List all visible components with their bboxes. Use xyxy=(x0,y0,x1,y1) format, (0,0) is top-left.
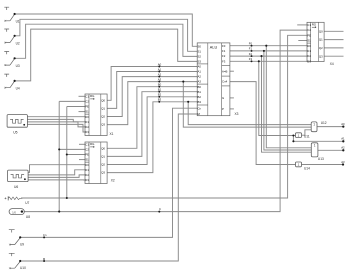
svg-text:U7: U7 xyxy=(25,201,29,205)
svg-text:U10: U10 xyxy=(20,266,26,270)
svg-text:A=B: A=B xyxy=(222,69,227,73)
wire B3 tap to U12 input1 xyxy=(188,102,311,125)
wire U14 output to terminal A3 xyxy=(302,164,344,166)
svg-text:Q3: Q3 xyxy=(101,123,105,127)
wire branch to output A1 terminal xyxy=(293,136,343,142)
svg-text:1: 1 xyxy=(313,123,315,127)
wire U5 out0 to X1 D0 xyxy=(27,116,85,118)
X4 Q3 output wire xyxy=(324,55,343,57)
VCC symbol above U10 xyxy=(9,253,15,256)
junction A3 tap xyxy=(182,81,184,83)
OR gate U13 xyxy=(311,143,318,157)
svg-text:B0: B0 xyxy=(158,83,162,87)
wire U4 to ALU S3 xyxy=(15,29,198,81)
buffer gate U11 xyxy=(296,133,302,138)
X2 C1 stub xyxy=(79,143,85,145)
svg-text:Cn4: Cn4 xyxy=(222,80,228,84)
switch U3 xyxy=(5,59,14,65)
svg-text:C1: C1 xyxy=(307,23,311,27)
ALU A=B stub xyxy=(230,70,234,72)
svg-text:PE: PE xyxy=(307,33,311,37)
OR gate U12 xyxy=(311,122,317,132)
svg-text:D0: D0 xyxy=(307,44,311,48)
svg-text:Q1: Q1 xyxy=(101,155,105,159)
svg-text:S1: S1 xyxy=(85,158,89,162)
X1 C1 stub xyxy=(79,95,86,97)
svg-text:1/0: 1/0 xyxy=(12,210,16,214)
wire X2 Q2 to ALU B2 xyxy=(107,97,197,165)
net dot Cn xyxy=(43,236,45,238)
clock source U8 xyxy=(9,209,24,215)
switch U9 xyxy=(10,238,20,245)
svg-text:D1: D1 xyxy=(307,49,311,53)
wire X1 Q2 to ALU A2 xyxy=(107,77,197,117)
svg-text:U6: U6 xyxy=(14,185,18,189)
terminal A3 xyxy=(342,163,344,165)
terminal A2 xyxy=(342,149,344,151)
wire ALU F1 to X4 D1 xyxy=(230,50,307,52)
switch U1 xyxy=(5,15,14,21)
net dot A2 xyxy=(158,76,160,78)
net dot F3 xyxy=(251,60,253,62)
svg-text:F0: F0 xyxy=(222,44,226,48)
X2 mode arrow xyxy=(90,146,94,148)
wire U6 out3 to X2 D3 xyxy=(28,179,85,181)
wire U5 out2 to X1 D2 xyxy=(27,122,85,127)
wire U1 to ALU S0 xyxy=(15,14,198,46)
net dot F2 xyxy=(251,55,253,57)
X2 C2 wire xyxy=(59,148,85,150)
wire X1 Q3 to ALU A3 xyxy=(107,82,197,125)
X4 C1 stub xyxy=(297,24,307,26)
junction F3 tap xyxy=(258,60,260,62)
svg-text:S1: S1 xyxy=(198,49,202,53)
wire X2 Q3 to ALU B3 xyxy=(107,102,197,173)
wire ALU F0 to X4 D0 xyxy=(230,45,307,47)
svg-text:U2: U2 xyxy=(16,41,20,45)
svg-text:Q0: Q0 xyxy=(101,146,105,150)
svg-text:PE: PE xyxy=(85,105,89,109)
junction U7 PE vertical xyxy=(66,197,68,199)
svg-text:F3: F3 xyxy=(249,57,253,61)
net dot B3 xyxy=(158,101,160,103)
switch U10 xyxy=(10,262,20,269)
svg-text:G: G xyxy=(222,96,224,100)
svg-text:RG: RG xyxy=(90,142,95,146)
VCC symbol above U9 xyxy=(9,230,15,233)
word generator U5 xyxy=(7,115,27,128)
svg-text:A3: A3 xyxy=(158,77,162,81)
ALU output section separator xyxy=(222,85,230,87)
buffer gate U14 xyxy=(296,162,302,167)
ALU section separator xyxy=(197,83,208,85)
ALU X3 body xyxy=(197,43,230,116)
svg-text:A1: A1 xyxy=(198,70,202,74)
X1 mode arrow xyxy=(90,98,94,100)
svg-text:U8: U8 xyxy=(26,215,30,219)
svg-text:A2: A2 xyxy=(198,75,202,79)
junction U11 input xyxy=(292,134,294,136)
wire U6 out1 to X2 D1 xyxy=(28,170,85,175)
junction F1 tap xyxy=(263,50,265,52)
junction dot U4 xyxy=(14,80,16,82)
svg-text:A3: A3 xyxy=(198,80,202,84)
svg-text:B2: B2 xyxy=(158,93,162,97)
X1 PE wire from U7 vertical xyxy=(67,107,85,199)
register X2 body xyxy=(85,142,107,184)
svg-text:A2: A2 xyxy=(158,72,162,76)
svg-text:S1: S1 xyxy=(85,110,89,114)
wire U3 to ALU S2 xyxy=(15,24,198,58)
svg-text:A3: A3 xyxy=(341,160,345,164)
wire U12 output to terminal A0 xyxy=(317,126,343,128)
X1 S1 stub xyxy=(79,111,86,113)
svg-text:A1: A1 xyxy=(341,137,345,141)
svg-text:D3: D3 xyxy=(85,178,89,182)
svg-text:RG: RG xyxy=(90,94,95,98)
X2 PE wire xyxy=(67,154,85,156)
svg-text:U5: U5 xyxy=(13,130,17,134)
svg-text:Q2: Q2 xyxy=(101,163,105,167)
svg-text:Q3: Q3 xyxy=(319,54,323,58)
wire U11 output to U12 xyxy=(302,130,312,135)
svg-text:F2: F2 xyxy=(249,52,253,56)
junction X2 PE xyxy=(66,153,68,155)
wire U7 to X4 PE xyxy=(21,35,307,198)
svg-text:C: C xyxy=(159,207,161,211)
svg-text:B0: B0 xyxy=(198,85,202,89)
output node dot U5 xyxy=(23,124,25,126)
svg-text:RG: RG xyxy=(312,22,317,26)
svg-text:1: 1 xyxy=(314,143,316,147)
wire ALU F3 to X4 D3 xyxy=(230,60,307,62)
register X4 body xyxy=(307,22,324,61)
svg-text:U12: U12 xyxy=(321,121,327,125)
svg-text:S0: S0 xyxy=(198,44,202,48)
svg-text:D1: D1 xyxy=(85,168,89,172)
svg-text:S3: S3 xyxy=(198,60,202,64)
svg-text:U13: U13 xyxy=(318,157,324,161)
svg-text:A1: A1 xyxy=(158,67,162,71)
wire F3 to U11 input xyxy=(259,61,296,135)
source U7 with resistor xyxy=(5,197,7,199)
svg-text:X3: X3 xyxy=(235,112,239,116)
VCC symbol above U1 xyxy=(4,7,9,10)
svg-text:C2: C2 xyxy=(307,28,311,32)
junction dot U10 xyxy=(19,260,21,262)
svg-text:Q3: Q3 xyxy=(101,171,105,175)
svg-text:B1: B1 xyxy=(158,88,162,92)
wire ALU Cn4 to U14 xyxy=(230,82,296,165)
X4 Q2 output wire xyxy=(324,47,343,49)
ALU output section separator xyxy=(222,75,230,77)
svg-text:C2: C2 xyxy=(85,148,89,152)
svg-text:B1: B1 xyxy=(198,90,202,94)
svg-text:S2: S2 xyxy=(198,55,202,59)
junction dot U2 xyxy=(14,35,16,37)
ALU G stub xyxy=(230,97,234,99)
net dot B0 xyxy=(158,86,160,88)
ALU section separator xyxy=(197,104,208,106)
svg-text:Q0: Q0 xyxy=(101,98,105,102)
svg-text:Cn: Cn xyxy=(43,233,47,237)
svg-text:Q2: Q2 xyxy=(319,46,323,50)
svg-text:F1: F1 xyxy=(222,49,226,53)
svg-text:ALU: ALU xyxy=(210,46,218,50)
wire X1 Q0 to ALU A0 xyxy=(107,67,197,101)
svg-text:U1: U1 xyxy=(16,20,20,24)
svg-text:U9: U9 xyxy=(20,243,24,247)
register X1 body xyxy=(85,94,107,136)
svg-text:Cn: Cn xyxy=(198,106,202,110)
svg-text:C1: C1 xyxy=(85,142,89,146)
svg-text:Q2: Q2 xyxy=(101,115,105,119)
svg-text:A0: A0 xyxy=(198,65,202,69)
X1 C2 wire from U8 vertical xyxy=(59,101,85,211)
junction dot U3 xyxy=(14,57,16,59)
wire X1 Q1 to ALU A1 xyxy=(107,72,197,109)
svg-text:D0: D0 xyxy=(85,163,89,167)
svg-text:P: P xyxy=(222,107,224,111)
wire U2 to ALU S1 xyxy=(15,19,198,51)
svg-text:U14: U14 xyxy=(304,167,310,171)
junction dot U1 xyxy=(14,13,16,15)
svg-text:B2: B2 xyxy=(198,95,202,99)
net dot F0 xyxy=(251,45,253,47)
wire U13 output to terminal A2 xyxy=(318,149,343,151)
wire U5 out3 to X1 D3 xyxy=(27,124,85,132)
net dot A1 xyxy=(158,71,160,73)
X4 section separator xyxy=(307,42,311,44)
svg-text:D0: D0 xyxy=(85,115,89,119)
wire U8 to X4 C2 xyxy=(24,30,307,212)
svg-text:C2: C2 xyxy=(85,100,89,104)
junction B3 tap xyxy=(187,101,189,103)
svg-text:Q1: Q1 xyxy=(319,38,323,42)
terminal A0 xyxy=(342,125,344,127)
junction F0 tap xyxy=(265,45,267,47)
X4 Q1 output wire xyxy=(324,39,343,41)
svg-text:D2: D2 xyxy=(307,54,311,58)
wire X2 Q1 to ALU B1 xyxy=(107,92,197,157)
wire U5 out1 to X1 D1 xyxy=(27,119,85,121)
svg-text:B3: B3 xyxy=(158,98,162,102)
wire X2 Q0 to ALU B0 xyxy=(107,87,197,149)
net dot A3 xyxy=(158,81,160,83)
net dot C on clock wire xyxy=(158,211,160,213)
svg-text:F2: F2 xyxy=(222,54,226,58)
X1 section separator xyxy=(85,113,89,115)
junction F2 tap xyxy=(260,55,262,57)
svg-text:D2: D2 xyxy=(85,125,89,129)
VCC symbol above U3 xyxy=(4,52,9,55)
ALU P stub xyxy=(230,108,234,110)
svg-text:U11: U11 xyxy=(304,135,310,139)
svg-text:Q0: Q0 xyxy=(319,29,323,33)
ALU section separator xyxy=(197,63,208,65)
wire A3 tap to U12 input2 xyxy=(183,82,311,128)
svg-text:D1: D1 xyxy=(85,120,89,124)
net dot B1 xyxy=(158,91,160,93)
junction U8 C2 vertical xyxy=(58,211,60,213)
wire U10 M to ALU M xyxy=(20,114,197,261)
terminal A1 xyxy=(342,140,344,142)
svg-text:F1: F1 xyxy=(249,47,253,51)
svg-text:PE: PE xyxy=(85,153,89,157)
wire ALU F2 to X4 D2 xyxy=(230,55,307,57)
X4 Q0 output wire xyxy=(324,30,343,32)
switch U4 xyxy=(5,82,14,88)
clock U8 output dot xyxy=(21,210,23,212)
svg-text:D3: D3 xyxy=(307,59,311,63)
X2 section separator xyxy=(85,161,89,163)
svg-text:A2: A2 xyxy=(341,146,345,150)
junction A1 branch xyxy=(292,140,294,142)
wire F0 to U13 input xyxy=(266,46,311,148)
svg-text:U4: U4 xyxy=(16,87,20,91)
output node dot U6 xyxy=(24,178,26,180)
wire U6 out0 to X2 D0 xyxy=(28,165,85,173)
wire U6 out2 to X2 D2 xyxy=(28,175,85,178)
svg-text:A0: A0 xyxy=(158,62,162,66)
wire F2 to U13 input xyxy=(262,56,312,152)
X4 mode arrow xyxy=(312,26,316,28)
svg-text:F3: F3 xyxy=(222,59,226,63)
junction X2 C2 xyxy=(58,148,60,150)
svg-text:M: M xyxy=(43,257,46,261)
svg-text:X4: X4 xyxy=(330,62,334,66)
svg-text:U3: U3 xyxy=(16,64,20,68)
wire F1 to U13 input xyxy=(264,51,311,150)
svg-text:B3: B3 xyxy=(198,100,202,104)
svg-text:Q1: Q1 xyxy=(101,107,105,111)
X4 S1 stub xyxy=(298,40,307,42)
junction dot U9 xyxy=(19,236,21,238)
ALU output section separator xyxy=(222,64,230,66)
VCC symbol above U4 xyxy=(4,74,9,77)
svg-text:C1: C1 xyxy=(85,94,89,98)
wire U9 Cn to ALU Cn xyxy=(20,108,197,237)
net dot A0 xyxy=(158,66,160,68)
net dot M xyxy=(43,260,45,262)
word generator U6 xyxy=(8,170,29,182)
X2 S1 stub xyxy=(79,159,85,161)
svg-text:S1: S1 xyxy=(307,39,311,43)
svg-text:X2: X2 xyxy=(111,179,115,183)
svg-text:X1: X1 xyxy=(110,132,114,136)
svg-text:D3: D3 xyxy=(85,130,89,134)
svg-text:D2: D2 xyxy=(85,173,89,177)
svg-text:A0: A0 xyxy=(341,122,345,126)
VCC symbol above U2 xyxy=(4,29,9,32)
net dot B2 xyxy=(158,96,160,98)
svg-text:F0: F0 xyxy=(249,42,253,46)
switch U2 xyxy=(5,36,14,42)
net dot F1 xyxy=(251,50,253,52)
